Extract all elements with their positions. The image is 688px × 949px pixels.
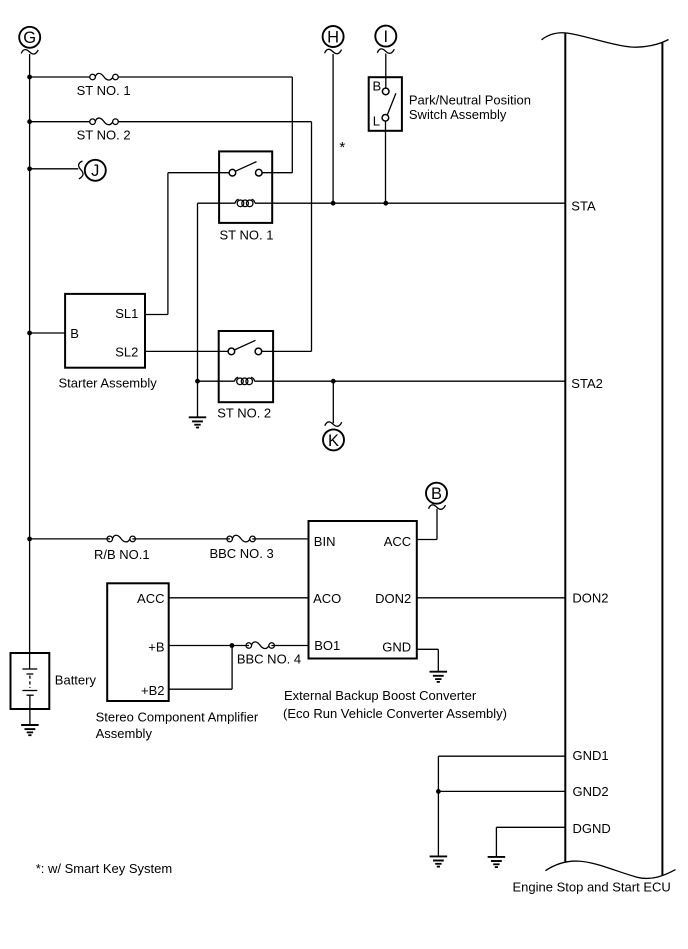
- svg-text:R/B NO.1: R/B NO.1: [94, 547, 150, 562]
- svg-text:DGND: DGND: [573, 821, 611, 836]
- svg-text:B: B: [373, 79, 382, 94]
- svg-text:Battery: Battery: [55, 673, 97, 688]
- svg-text:DON2: DON2: [572, 591, 608, 606]
- svg-text:GND1: GND1: [573, 748, 609, 763]
- svg-text:DON2: DON2: [375, 591, 411, 606]
- svg-text:ST NO. 1: ST NO. 1: [77, 83, 131, 98]
- svg-text:SL2: SL2: [115, 344, 138, 359]
- svg-text:STA2: STA2: [571, 376, 603, 391]
- svg-text:Assembly: Assembly: [96, 726, 153, 741]
- svg-text:BBC NO. 4: BBC NO. 4: [237, 652, 301, 667]
- svg-text:B: B: [70, 326, 79, 341]
- svg-text:GND: GND: [382, 640, 411, 655]
- svg-text:Switch Assembly: Switch Assembly: [409, 107, 507, 122]
- svg-text:ST NO. 2: ST NO. 2: [77, 128, 131, 143]
- svg-text:J: J: [91, 162, 99, 180]
- svg-text:L: L: [373, 114, 380, 129]
- svg-text:SL1: SL1: [115, 306, 138, 321]
- svg-text:External Backup Boost Converte: External Backup Boost Converter: [284, 688, 477, 703]
- svg-text:+B: +B: [148, 639, 164, 654]
- svg-text:BIN: BIN: [314, 534, 336, 549]
- svg-text:ST NO. 1: ST NO. 1: [220, 227, 274, 242]
- svg-text:(Eco Run Vehicle Converter Ass: (Eco Run Vehicle Converter Assembly): [283, 706, 507, 721]
- svg-text:ST NO. 2: ST NO. 2: [217, 405, 271, 420]
- svg-text:Engine Stop and Start ECU: Engine Stop and Start ECU: [513, 880, 671, 895]
- svg-text:ACC: ACC: [384, 534, 411, 549]
- svg-text:G: G: [23, 29, 36, 47]
- svg-text:ACC: ACC: [137, 591, 164, 606]
- svg-text:Stereo Component Amplifier: Stereo Component Amplifier: [96, 710, 259, 725]
- svg-text:Starter Assembly: Starter Assembly: [59, 375, 158, 390]
- svg-text:STA: STA: [571, 198, 596, 213]
- svg-text:BO1: BO1: [314, 638, 340, 653]
- svg-text:H: H: [327, 28, 339, 46]
- svg-text:*: *: [339, 139, 345, 156]
- svg-text:BBC NO. 3: BBC NO. 3: [209, 546, 273, 561]
- svg-text:*: w/ Smart Key System: *: w/ Smart Key System: [36, 861, 173, 876]
- svg-text:ACO: ACO: [313, 591, 341, 606]
- svg-text:GND2: GND2: [573, 784, 609, 799]
- svg-text:+B2: +B2: [141, 683, 165, 698]
- svg-text:I: I: [384, 28, 389, 46]
- svg-text:B: B: [431, 485, 442, 503]
- svg-text:Park/Neutral Position: Park/Neutral Position: [409, 92, 531, 107]
- svg-text:K: K: [328, 432, 339, 450]
